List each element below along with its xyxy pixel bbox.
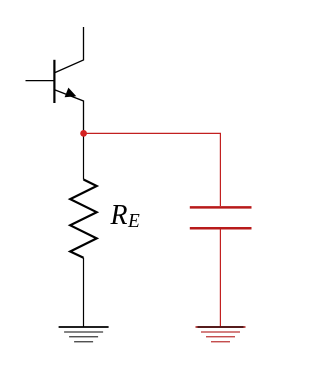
svg-text:R: R (110, 199, 128, 231)
svg-text:E: E (127, 210, 140, 232)
